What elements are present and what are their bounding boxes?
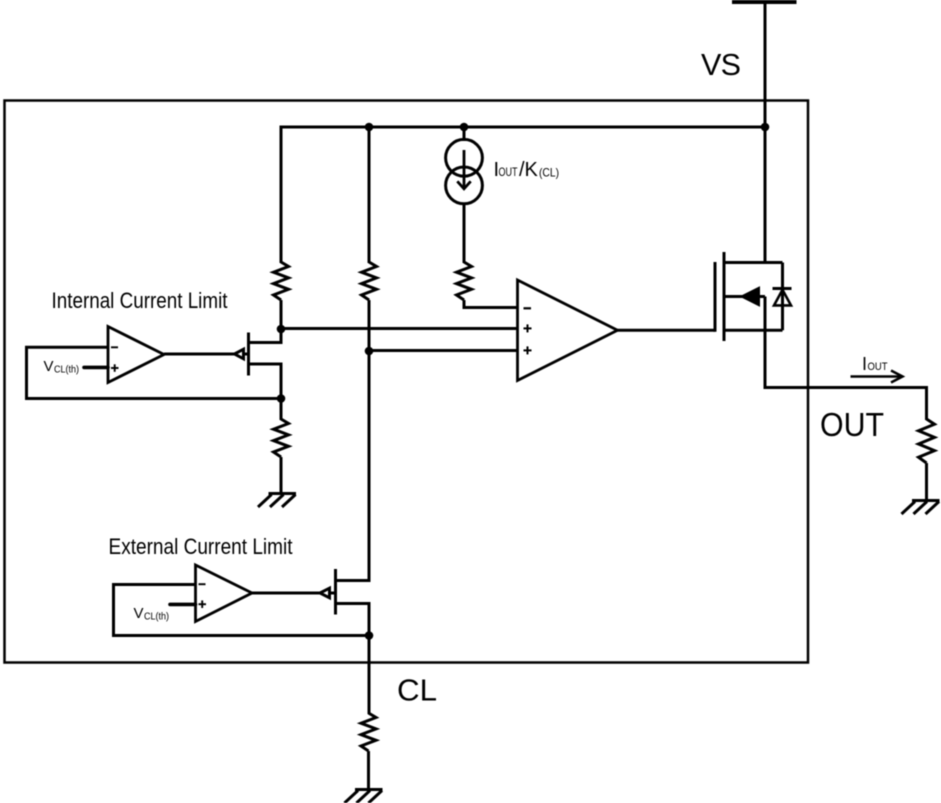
wire node B to comparator +2 — [369, 349, 518, 352]
junction node A — [277, 325, 286, 334]
wire U2 output to Q2 gate — [252, 592, 336, 595]
power supply bar VS — [732, 0, 797, 4]
U2 plus pin — [199, 600, 207, 608]
wire node A to comparator +1 — [281, 327, 518, 330]
Q1 gate arrow — [235, 349, 244, 359]
wire U2 feedback box — [114, 585, 370, 636]
current arrow IOUT — [851, 371, 903, 383]
svg-text:CL: CL — [397, 672, 437, 707]
junction rail-VS — [761, 123, 770, 132]
Q1 drain stub — [249, 329, 282, 343]
wire node B down to Q2 drain — [368, 351, 371, 582]
comparator U3 — [518, 280, 618, 381]
value label VCL(th) internal — [44, 358, 80, 376]
svg-text:OUT: OUT — [868, 361, 888, 373]
ground G1 — [258, 494, 296, 508]
wire branch1 down — [280, 126, 283, 264]
Q1 source stub — [249, 364, 282, 399]
IC boundary box — [5, 101, 809, 663]
value label VCL(th) external — [134, 605, 170, 623]
U3 plus pin 1 — [524, 324, 532, 332]
svg-text:VS: VS — [701, 48, 741, 82]
Q3 source stub — [724, 329, 783, 332]
Q3 body arrow — [741, 287, 760, 306]
svg-text:CL(th): CL(th) — [54, 365, 79, 376]
op-amp U2 — [196, 565, 253, 622]
wire R5 to ground — [367, 751, 370, 790]
U2 minus pin — [199, 583, 206, 585]
op-amp U1 — [108, 327, 164, 383]
junction node Q1 source — [277, 394, 286, 403]
Q2 source stub — [336, 604, 370, 636]
source VCL(th) external lead — [170, 603, 196, 607]
current label IOUT — [862, 354, 888, 374]
wire branch2 down — [368, 126, 371, 264]
wire R1 to node A — [280, 300, 283, 331]
Q2 drain stub — [336, 579, 370, 582]
wire OUT horizontal — [765, 386, 928, 389]
transistor Q1 bar — [247, 333, 250, 376]
wire node CL to resistor R5 — [368, 636, 371, 715]
svg-text:(CL): (CL) — [539, 166, 559, 180]
wire U1 feedback box — [27, 347, 282, 398]
resistor R6 — [919, 419, 935, 463]
svg-text:OUT: OUT — [499, 165, 518, 179]
wire R2 to node B — [368, 300, 371, 353]
svg-text:V: V — [44, 358, 54, 375]
svg-text:External Current Limit: External Current Limit — [109, 534, 293, 559]
wire R6 to ground — [925, 463, 928, 501]
resistor R5 — [361, 713, 376, 751]
wire VS rail vertical — [764, 2, 767, 264]
ground G2 — [345, 790, 383, 803]
svg-text:I: I — [862, 354, 867, 374]
svg-text:/K: /K — [519, 159, 539, 181]
resistor R3 — [457, 262, 472, 300]
wire U1 output to Q1 gate — [164, 353, 249, 356]
transistor Q2 bar — [334, 569, 337, 615]
junction rail-I1 — [460, 123, 469, 132]
wire U3 output to Q3 gate — [618, 329, 716, 332]
U3 minus pin — [524, 307, 532, 309]
U1 plus pin — [111, 364, 119, 372]
svg-text:V: V — [134, 605, 144, 622]
svg-text:OUT: OUT — [820, 406, 884, 443]
Q2 gate arrow — [320, 588, 330, 598]
current source I1 IOUT/K(CL) — [446, 139, 483, 203]
wire Q3 body to source — [764, 297, 767, 331]
value label IOUT/K(CL) — [494, 159, 560, 181]
svg-text:CL(th): CL(th) — [144, 612, 169, 623]
wire current source to R3 — [463, 204, 466, 263]
ground G3 — [902, 501, 940, 515]
wire node to R4 — [280, 399, 283, 421]
junction node CL — [365, 631, 374, 640]
Q3 drain stub — [724, 261, 783, 264]
resistor R1 — [274, 262, 289, 300]
U3 plus pin 2 — [524, 346, 532, 354]
svg-text:Internal Current Limit: Internal Current Limit — [52, 288, 228, 313]
wire R3 to comparator minus — [464, 300, 518, 308]
Q3 body line — [724, 295, 765, 298]
junction rail-R2 — [365, 123, 374, 132]
transistor Q3 channel bar — [723, 252, 726, 341]
diode D1 cathode bar — [773, 287, 792, 290]
wire Q3 source to OUT — [764, 330, 767, 389]
junction node B — [365, 347, 374, 356]
wire top supply rail — [281, 126, 765, 129]
resistor R4 — [274, 419, 289, 457]
wire R4 to ground — [280, 457, 283, 494]
diode D1 triangle — [774, 290, 791, 306]
U1 minus pin — [111, 346, 118, 348]
transistor Q3 gate bar — [714, 262, 717, 332]
body diode D1 branch — [781, 263, 784, 331]
wire OUT to R6 — [925, 386, 928, 420]
source VCL(th) internal lead — [84, 366, 108, 370]
wire rail to current source — [463, 127, 466, 141]
resistor R2 — [362, 262, 377, 300]
